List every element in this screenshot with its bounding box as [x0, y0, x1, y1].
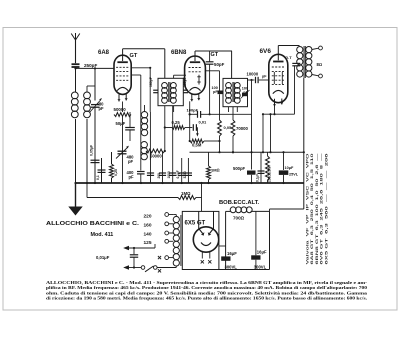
label 700 ohm	[233, 215, 245, 220]
IFT2 right trimmer 100pF	[241, 87, 250, 99]
svg-text:1000: 1000	[167, 171, 171, 178]
power transformer winding	[173, 216, 179, 266]
electrolytic 16uF #2	[251, 250, 267, 270]
capacitor 0.05uF on x95 line	[91, 160, 100, 162]
svg-text:160: 160	[144, 223, 152, 229]
IFT2 core	[233, 82, 234, 102]
wire avc left vertical	[149, 67, 151, 68]
wire line B to box	[196, 182, 203, 212]
wire antenna cap to coil	[75, 67, 77, 92]
svg-text:0,25: 0,25	[114, 169, 118, 176]
label 480pF tuning	[127, 155, 135, 165]
capacitor 500pF	[233, 152, 256, 183]
wire IFT2 bottoms	[229, 107, 238, 112]
label 6X5 GT	[185, 220, 206, 226]
capacitor 100pF series	[189, 101, 252, 141]
wire pot down	[232, 151, 234, 153]
capacitor 0.1uF (rotated label)	[256, 152, 265, 183]
svg-text:0,1: 0,1	[96, 175, 100, 180]
capacitor 250pF (antenna series)	[72, 64, 80, 67]
output transformer primary	[297, 47, 303, 78]
svg-text:6A8: 6A8	[98, 50, 110, 56]
svg-text:ohm. Caduta di tensione ai cap: ohm. Caduta di tensione ai capi del camp…	[46, 290, 368, 295]
capacitor 0.1 on x101.5	[98, 170, 106, 172]
wire 6BN8 plate line	[195, 51, 232, 56]
capacitor C #5	[183, 171, 192, 178]
variable capacitor 480pF tuning	[116, 146, 129, 159]
6X5 anode left	[199, 211, 205, 235]
svg-text:ALLOCCHIO BACCHINI e C.: ALLOCCHIO BACCHINI e C.	[46, 221, 140, 227]
resistor 1M horizontal	[178, 191, 196, 200]
6X5 heater pins	[201, 252, 212, 264]
wire 6A8 grid right	[131, 67, 151, 69]
node junction at 95,68.4	[74, 67, 96, 69]
wire IFT1 secondary top to 6BN8 grid	[174, 75, 186, 78]
node rail junctions	[74, 182, 284, 184]
svg-text:plifica in BF. Media frequenza: plifica in BF. Media frequenza: 465 kc/s…	[46, 285, 368, 290]
svg-text:0,01μF: 0,01μF	[96, 255, 110, 260]
IFT2 left trimmer 100pF	[212, 86, 223, 94]
IF transformer 1 box	[158, 78, 183, 105]
label 180pF right (rotated)	[183, 77, 187, 87]
resistor 0.05M	[218, 94, 232, 152]
wire pot to AF rail	[189, 113, 191, 115]
wire primary down to rail	[75, 119, 77, 183]
svg-text:0,25: 0,25	[172, 120, 181, 125]
svg-text:500pF: 500pF	[233, 166, 246, 171]
svg-text:50000: 50000	[114, 107, 127, 112]
wire x150.2 down (osc grid)	[149, 68, 151, 112]
IFT2 secondary coil	[234, 83, 240, 104]
label 10000pF	[247, 72, 268, 79]
caption text	[46, 280, 368, 301]
voltage table (rotated)	[306, 152, 329, 265]
wire 6V6 cathode network	[250, 66, 294, 153]
svg-text:pF: pF	[129, 175, 135, 180]
svg-text:0,01: 0,01	[199, 120, 208, 125]
svg-text:265Ω0,5W: 265Ω0,5W	[268, 167, 272, 182]
svg-text:0,1µF: 0,1µF	[176, 170, 180, 178]
IF transformer 2 box	[223, 78, 248, 106]
svg-text:Mod. 411: Mod. 411	[91, 232, 114, 238]
svg-text:BOB.ECC.ALT.: BOB.ECC.ALT.	[219, 200, 260, 206]
wire x181.7 down	[181, 158, 183, 183]
wire box bottom	[182, 269, 269, 271]
svg-text:1MΩ: 1MΩ	[211, 168, 220, 173]
label 0.1 (rotated)	[96, 175, 100, 180]
tap 160	[144, 222, 174, 229]
svg-text:180pF: 180pF	[149, 77, 153, 87]
label 100pF	[187, 108, 199, 113]
field coil 700 ohm	[230, 207, 252, 213]
svg-text:0,5M: 0,5M	[192, 143, 202, 148]
capacitor C 1000 #1	[147, 173, 154, 175]
wire box2 to B+ right	[270, 209, 304, 211]
wire grid junction	[189, 140, 191, 142]
wire x101.5 down	[101, 158, 103, 183]
wire mid vertical box2	[255, 211, 257, 255]
power switch	[141, 266, 176, 273]
label speaker impedance	[317, 62, 323, 67]
svg-text:0,05µF: 0,05µF	[89, 144, 93, 156]
svg-text:70000: 70000	[236, 126, 249, 131]
label 400pF	[127, 170, 135, 180]
label 6A8	[98, 50, 110, 56]
label 1M vertical	[211, 168, 220, 173]
wire osc coil top	[144, 105, 146, 112]
svg-text:pF: pF	[99, 106, 105, 111]
label 180pF left (rotated)	[149, 77, 153, 87]
wire 50000 down	[122, 102, 124, 113]
label 0.25 (rotated)	[114, 169, 118, 176]
svg-text:25VL: 25VL	[289, 173, 299, 177]
label 0.05uF (rotated)	[89, 144, 93, 156]
resistor 265 ohm	[266, 152, 272, 183]
6X5 cathode	[201, 243, 211, 246]
antenna	[71, 33, 80, 63]
resistor 50000 AVC	[146, 149, 166, 159]
wire oscillator core	[149, 112, 151, 160]
svg-text:200: 200	[157, 173, 161, 179]
label GT (6BN8)	[211, 52, 219, 58]
label 50pF	[214, 62, 225, 67]
svg-text:300VL: 300VL	[225, 265, 238, 270]
tube 6X5 GT rectifier	[193, 227, 218, 252]
wire x172.7 down	[172, 106, 174, 183]
svg-text:16μF: 16μF	[227, 251, 237, 256]
wire line B from rail	[87, 183, 178, 198]
capacitor 0.01uF line filter	[96, 244, 155, 270]
svg-text:50pF: 50pF	[214, 62, 225, 67]
svg-text:10000: 10000	[247, 72, 259, 77]
svg-text:6A8 GT 6,3 250 0,4 50 1,5: 6A8 GT 6,3 250 0,4 50 1,5 110	[310, 153, 314, 264]
trimmer capacitor 480pF	[90, 98, 103, 113]
svg-text:Valvola VF VP IP VSC VC: Valvola VF VP IP VSC VC VPO	[306, 152, 310, 264]
IFT1 right capacitor 180pF	[183, 90, 188, 93]
svg-text:50000: 50000	[150, 154, 162, 159]
wire chassis bottom rail	[76, 182, 304, 184]
speaker terminal top	[312, 46, 323, 50]
svg-text:3200: 3200	[183, 171, 187, 178]
resistor 70000	[231, 107, 248, 153]
svg-text:0,1µF: 0,1µF	[256, 174, 260, 182]
capacitor 400pF	[131, 75, 145, 183]
capacitor C #4	[176, 170, 185, 178]
ground arrow small	[0, 0, 1, 1]
node B+ AF rail	[303, 151, 305, 153]
IFT1 core	[169, 82, 170, 102]
electrolytic 10uF 25VL	[279, 151, 299, 183]
svg-text:GT: GT	[130, 53, 138, 59]
wire x188.4 down	[187, 158, 189, 183]
electrolytic 16uF #1	[221, 251, 237, 270]
capacitor across primary	[292, 63, 300, 65]
resistor 1M vertical	[207, 152, 211, 183]
speaker terminal bottom	[312, 74, 323, 78]
label GT (6A8)	[130, 53, 138, 59]
coil L3 oscillator upper	[141, 112, 147, 136]
IFT1 primary coil	[162, 83, 168, 104]
capacitor 50pF	[206, 51, 214, 115]
potentiometer 0.5M	[190, 139, 221, 147]
wire IFT2 top stub	[231, 51, 233, 78]
wire 50uF down to rail	[122, 117, 124, 184]
wire junction down to trimmer	[94, 68, 96, 100]
tap 140	[144, 231, 174, 238]
wire grid line y68.4	[76, 67, 115, 69]
svg-text:6BN8: 6BN8	[171, 50, 187, 56]
power box 1	[182, 211, 219, 269]
svg-text:700Ω: 700Ω	[233, 215, 245, 220]
wire 6BN8 right grid line	[205, 71, 219, 91]
svg-text:140: 140	[144, 232, 152, 238]
wire x162.5 down	[162, 151, 164, 183]
tube 6V6 GT	[269, 54, 288, 106]
svg-text:ALLOCCHIO, BACCHINI e C. - Mod: ALLOCCHIO, BACCHINI e C. - Mod. 411 - Su…	[46, 280, 368, 285]
wire B+ vertical right	[303, 78, 305, 209]
capacitor 50uF below 6A8	[116, 101, 135, 141]
output transformer secondary	[306, 47, 312, 78]
label 6V6	[260, 48, 272, 55]
tube 6A8 GT	[114, 55, 131, 101]
svg-text:6BN8 GT 6,3 100 1,0 50 2,: 6BN8 GT 6,3 100 1,0 50 2,6 —	[315, 152, 319, 265]
coil L2 antenna secondary	[84, 92, 91, 118]
ground arrow	[68, 183, 82, 216]
wire 6A8 plate to top rail	[123, 49, 165, 55]
IFT1 secondary coil	[171, 83, 177, 104]
label ALLOCCHIO BACCHINI e C.	[46, 221, 140, 227]
svg-text:6X5 GT: 6X5 GT	[185, 220, 206, 226]
wire IFT1 primary top to plate line	[164, 49, 166, 79]
coil L1 antenna primary	[71, 92, 78, 118]
svg-text:125: 125	[144, 240, 152, 246]
resistor 0.25M vertical	[110, 152, 114, 183]
label 6BN8	[171, 50, 187, 56]
wire trimmer line down	[94, 107, 96, 183]
capacitor C #2	[157, 173, 166, 179]
svg-text:220: 220	[144, 213, 152, 219]
resistor 0.25 horizontal	[172, 120, 186, 129]
tap 220	[144, 213, 177, 220]
wire 0.25 ends	[164, 126, 193, 128]
coil L4 oscillator lower	[141, 142, 147, 160]
svg-text:1MΩ: 1MΩ	[181, 191, 191, 196]
capacitor 10000pF	[248, 77, 269, 83]
svg-text:di ricezione: da 190 a 580 met: di ricezione: da 190 a 580 metri. Media …	[46, 296, 367, 301]
wire 6V6 plate top	[278, 46, 299, 55]
svg-text:100pF: 100pF	[187, 108, 199, 113]
capacitor C #3	[167, 171, 176, 178]
label Mod. 411	[91, 232, 114, 238]
wire detector junction	[218, 151, 234, 153]
tap X bottom	[158, 256, 173, 260]
svg-text:8Ω: 8Ω	[317, 62, 323, 67]
svg-text:GT: GT	[211, 52, 219, 58]
wire secondary top	[87, 86, 95, 92]
svg-text:10μF: 10μF	[285, 166, 295, 170]
field coil box 2	[226, 211, 270, 269]
capacitor 0.01	[193, 120, 207, 137]
output transformer core	[304, 46, 305, 78]
wire cap bank feeds	[150, 151, 152, 183]
svg-text:6V6 GT 6,3 245 26,6 180 8: 6V6 GT 6,3 245 26,6 180 8 —	[320, 152, 324, 265]
label BOB.ECC.ALT.	[219, 200, 260, 206]
svg-text:6V6: 6V6	[260, 48, 272, 55]
label 480pF trimmer	[97, 102, 105, 112]
wire cathode out	[219, 245, 226, 247]
svg-text:pF: pF	[128, 159, 134, 164]
svg-text:16μF: 16μF	[257, 250, 267, 255]
6X5 anode right	[208, 211, 214, 235]
IFT1 left capacitor 180pF	[153, 90, 158, 93]
label 250pF	[84, 63, 97, 68]
tube 6BN8 GT	[185, 56, 206, 101]
power transformer core	[180, 215, 182, 266]
label GT (6V6)	[285, 55, 292, 60]
IFT2 primary coil	[226, 83, 232, 104]
wire IFT1 bottoms down	[165, 106, 174, 151]
resistor 50000 below 6A8	[114, 107, 132, 117]
svg-text:6X5 GT 6,3 560 — — — 206: 6X5 GT 6,3 560 — — — 206	[324, 153, 328, 265]
wire secondary down to rail	[86, 119, 88, 183]
tap 125	[144, 239, 174, 246]
svg-text:250pF: 250pF	[84, 63, 97, 68]
wire AF rail y152.2	[190, 151, 304, 153]
svg-text:50µF: 50µF	[116, 121, 126, 126]
